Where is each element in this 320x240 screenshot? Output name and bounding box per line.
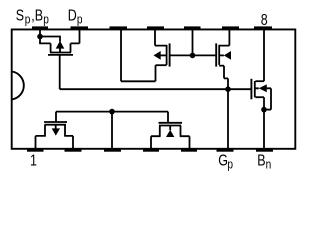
wire: Q6 gate lead down [167, 112, 169, 123]
pin 3 pad bottom [104, 149, 121, 152]
svg-text:D: D [68, 7, 77, 25]
wire: pin 3 riser to bus B junction [111, 112, 113, 149]
svg-text:p: p [77, 12, 83, 26]
wire: Q4 bulk return to source node [264, 109, 271, 111]
pin 6 pad bottom (Gp) [217, 149, 234, 152]
pin 1 pad bottom [27, 149, 44, 152]
wire: Q4 bulk return down [270, 88, 272, 109]
wire: Q4 drain horizontal [255, 80, 264, 82]
wire: Q5 gate lead down [55, 112, 57, 122]
pin 14 pad (Sp,Bp) top [32, 26, 48, 29]
package outline [12, 29, 296, 148]
transistor Q3 channel bar [218, 45, 220, 65]
transistor Q6 channel line [159, 125, 181, 127]
svg-text:p: p [227, 158, 233, 172]
pin 4 pad bottom [143, 149, 159, 152]
junction dot: Q2/Q3 common gate node [190, 53, 196, 59]
svg-text:S: S [16, 7, 24, 25]
transistor Q5 channel line [45, 124, 67, 126]
transistor P1 channel line [50, 52, 71, 54]
wire: Q4 source to Bn pin [263, 97, 265, 149]
pin 10 pad top [184, 26, 201, 29]
junction dot: gate bus A / Gp riser [225, 86, 231, 92]
wire: P1 drain step right [71, 43, 80, 52]
arrow: Q5 bulk (points down, p-channel) [52, 128, 60, 135]
wire: Q5 left terminal step [36, 125, 46, 149]
pin 5 pad bottom [181, 149, 197, 152]
wire: Q2 source down [155, 65, 157, 81]
arrow: Q6 bulk (points up toward channel, n-channel) [166, 130, 174, 137]
pin 9 pad top [222, 26, 239, 29]
wire: gate node to Q3 gate bar [193, 54, 216, 56]
transistor Q2 gate bar [169, 43, 171, 66]
wire: Q6 right terminal step [180, 126, 190, 150]
wire: Q4 source horizontal [255, 96, 264, 98]
svg-text:p: p [25, 12, 31, 26]
pin 13 pad (Dp) top [71, 26, 89, 29]
junction dot: bus B / pin 3 riser [109, 109, 115, 115]
wire: Q6 left terminal step [151, 126, 161, 150]
pin 12 pad top [110, 26, 128, 29]
svg-text:n: n [266, 158, 272, 172]
wire: Gp pin riser (crosses gate bus at junction) [227, 78, 229, 149]
svg-text:p: p [43, 12, 49, 26]
svg-text:B: B [257, 152, 265, 170]
wire: gate bus B (Q5/Q6 gates) [56, 111, 168, 113]
svg-text:G: G [218, 152, 228, 170]
wire: Q5 right terminal step [64, 125, 73, 149]
wire: Q2 bulk stub [160, 54, 167, 56]
pin 11 pad top [147, 26, 164, 29]
arrow: P1 bulk (points up, p-channel) [56, 41, 65, 49]
transistor Q2 channel bar [166, 45, 168, 65]
wire: pin 8 down to Q4 drain [263, 29, 265, 81]
pin 7 pad bottom (Bn) [256, 149, 273, 152]
wire: Q2 source horizontal to channel [156, 64, 167, 66]
transistor Q6 gate line [159, 122, 183, 124]
svg-text:B: B [35, 7, 43, 25]
transistor P1 gate line [48, 54, 73, 56]
wire: P1 gate lead down [59, 55, 61, 89]
wire: pin 11 down to Q2 drain [155, 29, 167, 46]
pin 2 pad bottom [65, 149, 82, 152]
arrow: Q4 bulk (points left toward channel, n-channel) [259, 84, 267, 92]
junction dot: Q4 source / bulk return [261, 107, 267, 113]
wire: Q5 bulk arrow stem [55, 125, 57, 129]
transistor Q3 gate bar [215, 43, 217, 66]
wire: Q3 source horizontal [219, 65, 224, 67]
wire: Q3 source down jog [224, 66, 228, 79]
label Bn [257, 152, 271, 172]
wire: P1 source step left [39, 43, 50, 52]
transistor Q4 gate bar [250, 79, 252, 100]
wire: Q6 bulk arrow stem [169, 126, 171, 131]
label Sp,Bp [16, 7, 49, 27]
label Gp [218, 152, 233, 172]
wire: pin 9 down to Q3 drain [219, 29, 229, 46]
wire: Sp,Bp pin to P1 source [39, 29, 41, 43]
wire: Dp pin to P1 drain [79, 29, 81, 43]
svg-text:1: 1 [30, 152, 37, 170]
wire: Q2 gate stub to common gate node [170, 54, 192, 56]
arrow: Q3 bulk (points left toward channel, n-channel) [224, 51, 231, 60]
wire: Q3 bulk stub [219, 54, 224, 56]
arrow: Q2 bulk (points left, p-channel) [154, 51, 161, 60]
wire: pin 12 down to Q2 source bus [120, 29, 122, 81]
wire: gate bus A (P1 gate to Q4 gate) [60, 88, 251, 90]
label Dp [68, 7, 83, 27]
wire: bus pin12 to Q2 source [121, 80, 156, 82]
notch (pin-1 index semicircle on left edge) [12, 72, 24, 100]
transistor Q5 gate line [44, 121, 67, 123]
pin 8 pad top [254, 26, 272, 29]
svg-text:8: 8 [261, 12, 268, 30]
transistor Q4 channel bar [254, 81, 256, 97]
wire: P1 bulk tie to source [40, 37, 60, 42]
wire: P1 bulk arrow stem to channel [59, 48, 61, 53]
wire: pin 10 down to Q2/Q3 gate junction [192, 29, 194, 55]
wire: Q4 bulk stub right [255, 87, 271, 89]
junction dot: Sp,Bp source/bulk tie [37, 34, 43, 40]
